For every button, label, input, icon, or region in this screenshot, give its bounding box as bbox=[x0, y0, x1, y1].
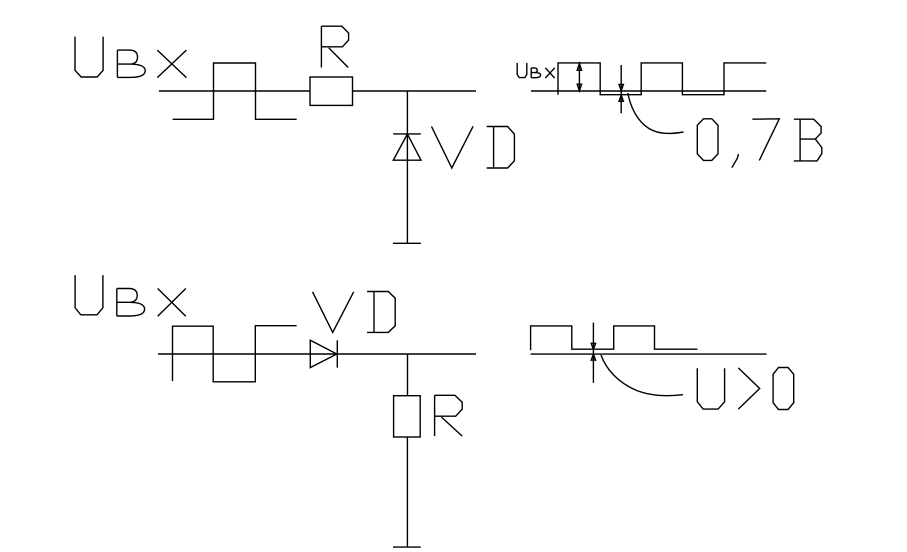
bottom-right output waveform (rectified square wave) bbox=[531, 326, 698, 350]
wire: junction from top wire down to diode VD bbox=[406, 91, 408, 244]
label VD (bottom circuit) bbox=[313, 292, 396, 333]
wire: resistor bottom lead bbox=[406, 437, 408, 548]
wire: zero axis of bottom-right waveform bbox=[531, 353, 767, 355]
dimension arrow (amplitude, top-right waveform) bbox=[577, 63, 581, 91]
wire: zero axis of top-right waveform bbox=[531, 90, 766, 92]
value label 0,7В bbox=[697, 119, 822, 168]
leader line to 0,7В label bbox=[628, 93, 684, 133]
value label R (bottom circuit) bbox=[435, 395, 463, 436]
leader line to U>0 label bbox=[601, 355, 683, 396]
label VD (top circuit) bbox=[432, 126, 515, 168]
resistor R (top circuit, series) bbox=[310, 77, 353, 105]
resistor R (bottom circuit, shunt) bbox=[394, 396, 421, 437]
node Uвх small label (top-right waveform) bbox=[517, 63, 555, 78]
diode VD (top circuit, shunt) bbox=[393, 134, 421, 160]
ground terminal (bottom circuit) bbox=[393, 546, 421, 548]
value label U>0 bbox=[697, 368, 793, 410]
wire: top circuit main horizontal line bbox=[159, 90, 476, 92]
node Uвх label (top circuit input) bbox=[75, 37, 186, 78]
diode VD (bottom circuit, series) bbox=[310, 340, 337, 367]
wire: bottom circuit main horizontal line bbox=[158, 353, 476, 355]
top-right output waveform (clipped square wave) bbox=[558, 63, 766, 95]
dimension arrow (U>0 offset, bottom-right waveform) bbox=[591, 323, 595, 383]
input square-pulse symbol (top circuit) bbox=[173, 63, 297, 119]
node Uвх label (bottom circuit input) bbox=[75, 275, 186, 316]
ground terminal (top circuit) bbox=[393, 242, 421, 244]
input square-wave symbol (bottom circuit, bipolar) bbox=[173, 326, 297, 382]
wire: junction from bottom wire down to resistor R bbox=[407, 354, 409, 396]
dimension arrow (0.7V drop, top-right waveform) bbox=[619, 65, 623, 113]
value label R (top circuit) bbox=[321, 26, 348, 67]
